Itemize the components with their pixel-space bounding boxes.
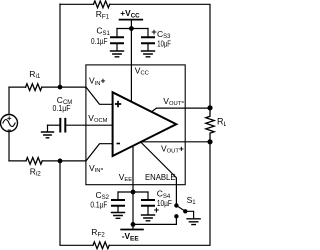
svg-text:VIN+: VIN+ bbox=[89, 76, 105, 87]
junction node VOUT- bbox=[207, 105, 212, 110]
resistor Ri2 bbox=[26, 158, 42, 165]
svg-text:+: + bbox=[151, 27, 156, 37]
amp box U1 bbox=[86, 65, 185, 185]
junction node VEE bypass bbox=[131, 190, 136, 195]
switch S1 contact C (-vee) bbox=[174, 214, 178, 218]
junction node VCC bypass bbox=[129, 26, 134, 31]
capacitor CS2 bbox=[112, 192, 125, 218]
ground at S1 bbox=[187, 219, 200, 225]
svg-text:S1: S1 bbox=[187, 195, 197, 206]
capacitor CCM (horizontal) with ground bbox=[42, 119, 87, 138]
wire: VOUT+ tap to right bbox=[142, 141, 210, 143]
switch S1 lever bbox=[176, 206, 185, 212]
wire: RF1 to top right corner and down bbox=[110, 4, 210, 108]
wire: VIN+ pin to triangle plus input bbox=[86, 87, 113, 104]
svg-text:VOCM: VOCM bbox=[88, 113, 107, 124]
ground below CS4 bbox=[142, 215, 155, 221]
source plus mark bbox=[8, 117, 11, 120]
wire: VCC node to amp VCC pin bbox=[130, 29, 132, 102]
svg-text:VIN-: VIN- bbox=[89, 163, 103, 174]
wire: VEE bypass rail bbox=[118, 191, 148, 193]
wire: VIN- pin to triangle minus input bbox=[86, 144, 113, 161]
capacitor CS3 bbox=[142, 29, 155, 57]
wire: top left to RF1 bbox=[60, 3, 94, 5]
ground below CS1 bbox=[111, 51, 124, 57]
wire: ENABLE diagonal from triangle edge down to switch bbox=[141, 142, 177, 206]
wire: source to Ri1 bbox=[9, 86, 26, 88]
wire: VCC bypass rail bbox=[117, 28, 148, 30]
switch S1 contact B (gnd) bbox=[183, 209, 187, 213]
wire: feedback top vertical from VIN+ node bbox=[59, 4, 61, 87]
svg-text:Ri1: Ri1 bbox=[29, 69, 41, 80]
junction node VIN- bbox=[58, 159, 63, 164]
resistor Ri1 bbox=[26, 84, 42, 91]
svg-text:VCC: VCC bbox=[135, 65, 149, 76]
resistor RL (vertical) bbox=[206, 108, 214, 142]
wire: source bottom to VIN- row bbox=[8, 132, 10, 161]
triangle minus input sign bbox=[117, 143, 121, 145]
ground at CCM bbox=[42, 132, 54, 138]
svg-text:0.1µF: 0.1µF bbox=[53, 103, 71, 113]
svg-text:-VEE: -VEE bbox=[122, 231, 140, 242]
wire: VOCM pin into triangle bbox=[86, 124, 113, 126]
switch S1 contact A (enable) bbox=[174, 203, 178, 207]
wire: Ri2 to VIN- pin bbox=[42, 160, 86, 162]
svg-text:+: + bbox=[154, 205, 160, 216]
junction node -VEE bbox=[131, 222, 136, 227]
op-amp triangle bbox=[113, 92, 177, 156]
svg-text:Ri2: Ri2 bbox=[30, 166, 42, 177]
source sine bbox=[3, 120, 15, 127]
junction node VOUT+ bbox=[207, 139, 212, 144]
ground below CS3 bbox=[142, 51, 155, 57]
resistor RF2 bbox=[93, 242, 109, 249]
wire: VEE pin from triangle to bottom bbox=[132, 146, 134, 230]
source minus mark bbox=[8, 129, 10, 131]
svg-text:+VCC: +VCC bbox=[120, 8, 140, 19]
power bar -VEE bbox=[121, 229, 143, 231]
svg-text:VOUT-: VOUT- bbox=[163, 96, 184, 107]
wire: Ri1 to VIN+ pin bbox=[42, 86, 86, 88]
wire: VCC power bar stem bbox=[130, 20, 132, 29]
svg-text:RL: RL bbox=[217, 117, 226, 128]
svg-text:VEE: VEE bbox=[119, 172, 133, 183]
svg-text:ENABLE: ENABLE bbox=[145, 173, 176, 182]
svg-text:0.1µF: 0.1µF bbox=[90, 199, 107, 209]
junction node VIN+ bbox=[58, 85, 63, 90]
wire: S1 to ground bbox=[185, 211, 193, 218]
svg-text:RF1: RF1 bbox=[96, 9, 110, 20]
capacitor CS1 bbox=[111, 29, 124, 57]
source V1 circle bbox=[1, 115, 18, 132]
svg-text:RF2: RF2 bbox=[91, 227, 105, 238]
triangle plus input sign bbox=[115, 101, 121, 107]
power bar +VCC bbox=[120, 19, 143, 21]
wire: left column through source bbox=[8, 87, 10, 114]
capacitor CS4 bbox=[142, 192, 155, 221]
wire: VOUT- tap to right bbox=[152, 108, 211, 112]
svg-text:10µF: 10µF bbox=[157, 38, 171, 48]
wire: VIN- node down to bottom rail bbox=[60, 161, 93, 245]
wire: to Ri2 bbox=[9, 160, 26, 162]
svg-text:VOUT+: VOUT+ bbox=[161, 143, 184, 154]
resistor RF1 bbox=[94, 1, 110, 8]
wire: S1 lower contact to -VEE rail bbox=[133, 216, 176, 224]
wire: RF2 to bottom right and up to VOUT+ node bbox=[109, 142, 210, 246]
ground below CS2 bbox=[112, 213, 125, 219]
svg-text:0.1µF: 0.1µF bbox=[91, 36, 108, 46]
